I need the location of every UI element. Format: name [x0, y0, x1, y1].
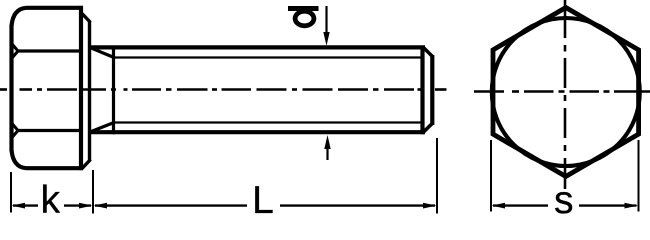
k dimension extension line (left)	[10, 172, 12, 213]
head bottom edge	[26, 166, 83, 170]
head left edge	[9, 25, 13, 151]
head facet chamfer wedges	[12, 44, 18, 138]
lower facet notch diagonals	[12, 124, 18, 131]
thread start vertical line	[112, 46, 115, 135]
L dimension extension line (right, at bolt tip)	[436, 138, 438, 214]
vertical centerline (end view)	[564, 0, 567, 189]
shank top edge	[90, 45, 425, 49]
washer face vertical	[88, 21, 91, 161]
thread minor diameter lines	[114, 58, 423, 123]
d bowl ring	[295, 11, 314, 26]
tip end face	[430, 55, 434, 125]
k dimension line	[13, 204, 91, 206]
shared extension line head/shank (k right, L left)	[92, 170, 94, 214]
L dimension line	[95, 204, 435, 206]
svg-text:s: s	[554, 179, 574, 215]
s right arrow	[625, 203, 638, 209]
upper facet notch diagonals	[12, 44, 18, 51]
svg-text:k: k	[40, 179, 60, 215]
washer face under head	[82, 14, 91, 169]
shank bottom edge	[90, 130, 425, 134]
head facet boundary lines	[16, 51, 81, 131]
bolt head outline (side view)	[12, 6, 84, 170]
tip chamfer vertical line	[420, 46, 424, 135]
s left arrow	[492, 203, 505, 209]
svg-text:L: L	[252, 179, 274, 215]
d dimension bottom arrow	[324, 135, 330, 160]
k left arrow	[12, 203, 25, 209]
thread run-out diagonals near head	[92, 48, 115, 131]
hexagon head end view	[493, 8, 639, 177]
washer top chamfer diagonal	[82, 14, 91, 23]
d stem bar	[288, 6, 319, 11]
shank outer edges	[90, 47, 425, 132]
d dimension label (rotated d drawn as shapes)	[288, 6, 319, 26]
chamfer circle in end view	[492, 18, 640, 166]
s dimension extension line (right)	[638, 140, 640, 212]
L right arrow	[423, 203, 436, 209]
k right arrow	[79, 203, 92, 209]
head bottom-left chamfer arc	[12, 150, 27, 168]
head top edge	[26, 6, 83, 10]
s dimension extension line (left)	[490, 140, 492, 212]
centerline of bolt axis (side view)	[0, 88, 447, 91]
head right edge (bearing side)	[79, 6, 83, 170]
horizontal centerline (end view)	[474, 90, 650, 93]
d dimension top arrow	[323, 6, 329, 46]
washer bottom chamfer diagonal	[82, 160, 91, 169]
tip chamfer diagonals	[424, 48, 433, 132]
head top-left chamfer arc	[12, 8, 27, 26]
s dimension line	[493, 204, 637, 206]
L left arrow	[94, 203, 107, 209]
